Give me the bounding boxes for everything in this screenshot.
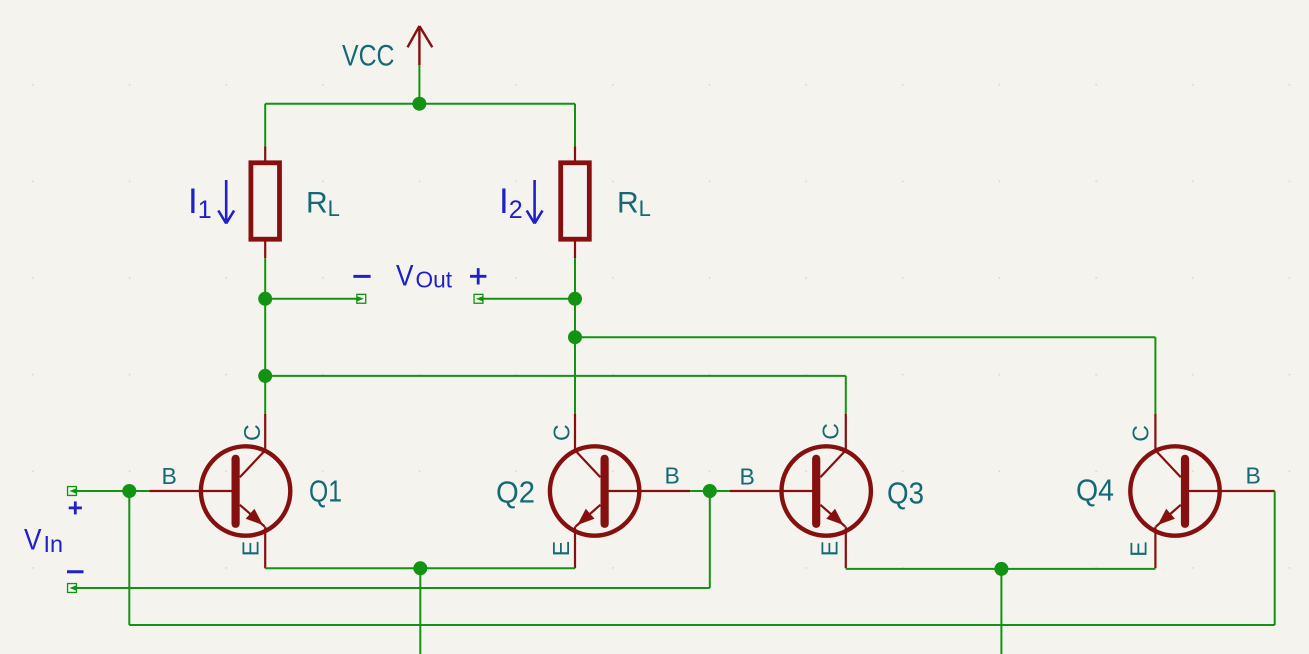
junction emitter bus 2: [994, 562, 1008, 576]
wire Q2 base to Q3 base: [690, 490, 729, 492]
pin Q4 base line: [1182, 490, 1275, 492]
transistor Q1 (NPN): [201, 414, 290, 568]
wire Q2 collector column: [574, 258, 576, 414]
wire R1 top: [264, 104, 266, 147]
svg-text:B: B: [740, 464, 755, 490]
wire Q1-Q2 emitter bus: [265, 567, 575, 569]
svg-text:C: C: [1128, 425, 1154, 442]
svg-text:B: B: [162, 463, 177, 489]
pin R1 bottom stub: [264, 241, 266, 258]
wire bus to Q3 collector: [265, 375, 846, 377]
wire R2 top: [574, 104, 576, 147]
wire Vout- tap: [265, 298, 356, 300]
junction Vin+ node: [122, 484, 136, 498]
svg-text:B: B: [1246, 463, 1261, 489]
svg-text:Q3: Q3: [887, 476, 924, 511]
junction Q4 collector bus tap: [568, 330, 582, 344]
text Vin plus sign: [69, 501, 82, 514]
arrow I1 (down): [218, 180, 234, 224]
svg-text:Q4: Q4: [1076, 473, 1114, 508]
svg-text:C: C: [549, 424, 575, 441]
junction Vout- node: [258, 292, 272, 306]
transistor Q3 (NPN): [782, 414, 871, 568]
text Vout plus sign: [470, 268, 486, 284]
svg-text:V: V: [396, 260, 414, 293]
resistor RL (left, R1): [251, 163, 280, 239]
no-connect square Vin-: [68, 584, 77, 593]
svg-text:C: C: [239, 424, 265, 441]
pin R1 top stub: [264, 147, 266, 161]
wire Vout+ tap: [483, 298, 575, 300]
wire Vin+ drop: [128, 491, 130, 625]
transistor Q2 (NPN, mirrored): [550, 414, 639, 568]
no-connect square Vout+: [474, 294, 483, 303]
pin R2 top stub: [574, 147, 576, 161]
junction Q2/Q3 base node: [703, 484, 717, 498]
wire bus to Q4 collector: [575, 336, 1155, 338]
resistor RL (right, R2): [561, 163, 590, 239]
svg-text:V: V: [24, 524, 42, 557]
no-connect square Vout-: [357, 294, 366, 303]
wire emitter bus 2 tail: [1000, 569, 1002, 654]
svg-text:Q1: Q1: [309, 474, 342, 509]
wire Q3 collector drop: [845, 376, 847, 415]
svg-text:C: C: [818, 423, 844, 440]
wire base tap to Vin-: [709, 491, 711, 588]
junction Vout+ node: [568, 292, 582, 306]
svg-text:E: E: [817, 541, 843, 556]
junction emitter bus 1: [413, 561, 427, 575]
svg-text:Q2: Q2: [496, 475, 535, 510]
pin Q1 base line: [149, 490, 238, 492]
wire Q4 base drop: [1274, 491, 1276, 625]
svg-text:VCC: VCC: [342, 39, 395, 72]
text Vin minus sign: [67, 570, 84, 573]
pin R2 bottom stub: [574, 241, 576, 258]
wire Vin+ to Q1 base: [76, 490, 149, 492]
junction Q3 collector bus tap: [258, 369, 272, 383]
power symbol VCC arrow: [408, 26, 433, 65]
text Vout minus sign: [353, 275, 370, 278]
svg-text:E: E: [1126, 541, 1152, 556]
wire Q4 collector drop: [1154, 337, 1156, 414]
arrow I2 (down): [527, 180, 543, 224]
wire top bus: [265, 103, 575, 105]
text label VOut: [396, 260, 453, 293]
svg-text:E: E: [548, 541, 574, 556]
pin Q3 base line: [730, 490, 820, 492]
wire bottom bus: [129, 624, 1274, 626]
svg-text:B: B: [665, 463, 680, 489]
wire Q1 collector column: [264, 258, 266, 414]
wire VCC stem: [418, 65, 420, 104]
svg-text:In: In: [44, 531, 64, 557]
svg-text:E: E: [238, 541, 264, 556]
wire Q3-Q4 emitter bus: [846, 568, 1156, 570]
junction at VCC / top bus: [412, 97, 426, 111]
wire Vin- line: [76, 587, 710, 589]
svg-text:Out: Out: [416, 266, 453, 292]
text label VIn: [24, 524, 63, 558]
transistor Q4 (NPN, mirrored): [1130, 414, 1219, 568]
pin Q2 base line: [602, 490, 691, 492]
wire emitter bus 1 tail: [419, 568, 421, 654]
no-connect square Vin+: [68, 487, 77, 496]
